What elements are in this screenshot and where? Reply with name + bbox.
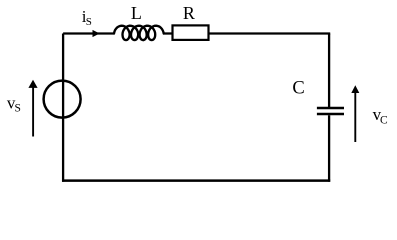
svg-text:L: L [131,3,142,23]
capacitor C bottom plate [317,113,344,116]
wire right vertical upper [328,34,330,108]
svg-text:C: C [292,79,304,99]
voltage source VS circle [44,81,81,118]
vC reference arrow [354,93,356,143]
inductor L [114,26,164,40]
wire R-to-corner [210,32,331,34]
wire top-left segment [63,32,114,34]
capacitor C top plate [317,107,344,110]
wire L-to-R [164,32,172,34]
svg-text:R: R [183,3,195,23]
svg-text:S: S [15,103,21,115]
resistor R [173,25,209,40]
wire bottom [62,179,330,182]
svg-text:S: S [86,16,92,28]
wire right vertical lower [328,115,330,182]
svg-text:C: C [380,114,388,126]
current direction arrowhead iS [93,30,100,37]
vS reference arrow [32,87,34,137]
wire left vertical [62,34,64,182]
